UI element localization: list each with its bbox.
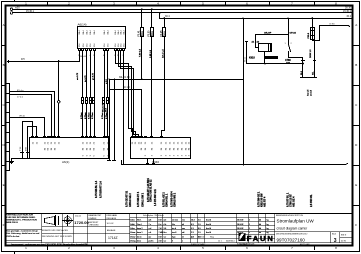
svg-text:Wag: Wag — [210, 236, 214, 238]
svg-text:0 Anz: 0 Anz — [130, 227, 135, 230]
svg-text:Schaltplan / DIN blatt: Schaltplan / DIN blatt — [143, 214, 164, 217]
svg-text:17 d.n: 17 d.n — [17, 97, 24, 99]
svg-text:F: F — [355, 223, 357, 227]
svg-text:12 1: 12 1 — [218, 241, 222, 243]
description block — [275, 232, 353, 243]
svg-text:X340.2 GN 31 AB 12: X340.2 GN 31 AB 12 — [150, 179, 153, 202]
projection symbol circle — [63, 216, 73, 226]
svg-text:v-4: v-4 — [149, 232, 152, 234]
svg-text:bmw 1: bmw 1 — [137, 232, 143, 234]
svg-text:E: E — [3, 183, 5, 187]
svg-text:15 30.1: 15 30.1 — [343, 10, 352, 13]
svg-text:8 br: 8 br — [172, 223, 176, 226]
svg-text:Das gezeigte. zusammen mit ge: Das gezeigte. zusammen mit ge — [7, 230, 39, 233]
ground arc pin ticks — [21, 152, 29, 154]
svg-text:gez: gez — [191, 236, 194, 238]
wire from pin 11 joining lower net — [121, 161, 123, 165]
wire mid bundle from 30L bus to lower edge — [114, 80, 116, 161]
svg-text:IDF/BLOCKHEIZ: IDF/BLOCKHEIZ — [191, 244, 206, 246]
wire fuse F3 down jog to connector X340 pin 7 — [162, 37, 165, 138]
fuse F3 body — [163, 28, 166, 37]
wire A6 pin 9 jog to X340 pin 2 — [119, 51, 136, 138]
svg-text:1.5: 1.5 — [198, 232, 201, 234]
svg-text:0 Abt: 0 Abt — [130, 223, 135, 226]
wire bus to fuse F30.5 — [312, 19, 314, 28]
svg-text:1: 1 — [249, 224, 250, 226]
connector X340 body — [131, 138, 191, 159]
wire A6 pin 3 to connector A6(1) — [90, 51, 92, 137]
bus right end labels — [343, 6, 352, 18]
svg-text:8.3: 8.3 — [191, 224, 194, 226]
svg-text:A02 RT 4: A02 RT 4 — [264, 196, 267, 207]
svg-text:bmw 2: bmw 2 — [137, 228, 143, 230]
svg-text:4-8: 4-8 — [149, 220, 152, 222]
svg-text:30L-F1 30: 30L-F1 30 — [119, 77, 130, 79]
svg-text:44: 44 — [259, 224, 261, 226]
bottom wire designation columns — [95, 178, 313, 207]
svg-text:C780: C780 — [285, 59, 291, 62]
svg-text:F0.15: F0.15 — [161, 30, 163, 37]
svg-text:1-v: 1-v — [164, 241, 167, 243]
wire AV branch — [109, 80, 111, 161]
parts table — [130, 214, 275, 243]
wire end hook right — [346, 164, 348, 165]
title block frame — [6, 213, 353, 215]
svg-text:A6(1): A6(1) — [62, 160, 69, 164]
svg-text:A6(14): A6(14) — [78, 23, 87, 27]
sheet right mini cells — [341, 234, 347, 242]
svg-text:0.75sw: 0.75sw — [92, 112, 94, 119]
svg-text:Stk 1: Stk 1 — [137, 219, 141, 222]
svg-text:EV d.n: EV d.n — [17, 90, 24, 92]
svg-text:0.75sw: 0.75sw — [106, 112, 108, 119]
bus 15 left terminal circle — [10, 12, 13, 15]
svg-text:VE dn: VE dn — [19, 116, 26, 118]
inline splice connectors row — [82, 98, 109, 104]
svg-text:0.75sw: 0.75sw — [85, 112, 87, 119]
wire long lower net — [122, 164, 346, 166]
side margin row ticks — [2, 46, 360, 206]
junction DH at branch — [58, 60, 60, 62]
svg-text:ZEICHNUNGSNUMMER/DWG-NO: ZEICHNUNGSNUMMER/DWG-NO — [276, 234, 308, 236]
svg-text:1-6 mm: 1-6 mm — [172, 220, 179, 222]
svg-text:0.75 SW-BL 1.4: 0.75 SW-BL 1.4 — [95, 180, 98, 198]
wire fuse drop to ground bar — [314, 41, 316, 78]
wire A6 pin 8 jog to X340 pin 1 — [116, 51, 133, 138]
wire label DR-V1.00 — [265, 56, 278, 59]
svg-text:2-6: 2-6 — [164, 228, 167, 230]
svg-text:ANT2 GEN.: ANT2 GEN. — [300, 243, 310, 246]
svg-text:ANLAGE: ANLAGE — [107, 229, 116, 232]
svg-text:B: B — [355, 63, 357, 67]
svg-text:sw 0.75: sw 0.75 — [77, 72, 79, 80]
ground symbol — [10, 159, 14, 164]
svg-text:DR06 1.5: DR06 1.5 — [310, 49, 312, 58]
svg-text:F30.5: F30.5 — [308, 32, 310, 38]
svg-text:0 bmg: 0 bmg — [130, 241, 135, 243]
svg-text:2.5: 2.5 — [198, 220, 201, 222]
svg-text:A02 GE 4: A02 GE 4 — [293, 196, 296, 207]
ground bar right pair — [301, 77, 317, 79]
svg-text:2.3: 2.3 — [191, 232, 194, 234]
svg-text:RELEASE: RELEASE — [107, 217, 117, 220]
svg-text:DH: DH — [21, 58, 25, 61]
svg-text:30-11: 30-11 — [245, 56, 247, 62]
junction on bus at fuse F1 — [141, 8, 143, 10]
svg-text:0.75 BR-RT 2.4: 0.75 BR-RT 2.4 — [100, 181, 103, 198]
column numbers top — [25, 2, 337, 6]
wire fuse F30.5 to border — [313, 26, 349, 41]
svg-text:1720.00: 1720.00 — [74, 220, 89, 225]
junction bus 15-4 relay drop — [242, 17, 244, 19]
svg-text:15 30.1: 15 30.1 — [26, 10, 35, 13]
svg-text:◄30: ◄30 — [15, 6, 21, 9]
svg-text:10.9.02: 10.9.02 — [237, 224, 243, 226]
svg-text:NO.01 00: NO.01 00 — [102, 103, 104, 112]
wire A6 pin 10 jog to X340 pin 3 — [121, 51, 139, 138]
fuse F30.5 body — [311, 28, 315, 40]
wire 17 to connector A6(1) pin 5 — [10, 95, 52, 138]
junction marker on DH branch — [58, 101, 60, 103]
svg-text:0.5: 0.5 — [198, 228, 201, 230]
junction on bus at fuse F2 — [151, 8, 153, 10]
wire ground arc to pin 2 — [28, 127, 37, 159]
connector X340 bottom stub 2 — [153, 159, 155, 164]
svg-text:7 v: 7 v — [149, 224, 152, 226]
relay K918 coil — [259, 44, 272, 52]
wire relay riser — [288, 19, 290, 35]
svg-text:F0.41: F0.41 — [138, 30, 141, 37]
svg-text:1: 1 — [249, 220, 250, 222]
wire fuse F1 down to node bus30L — [141, 37, 143, 80]
fold mark top — [14, 1, 16, 2]
svg-text:brn 4: brn 4 — [137, 235, 141, 238]
svg-text:E: E — [355, 183, 357, 187]
svg-text:0 Anz: 0 Anz — [130, 219, 135, 222]
svg-text:3: 3 — [334, 238, 337, 244]
wire A6 pin 2 to connector A6(1) — [86, 51, 88, 137]
svg-text:DK-00: DK-00 — [80, 56, 87, 58]
svg-text:b4: b4 — [182, 224, 184, 226]
parts table cell texts — [130, 219, 268, 243]
title block confidential text — [7, 214, 40, 238]
svg-text:hm 1.5: hm 1.5 — [308, 89, 310, 96]
svg-text:2.5 SW 94L: 2.5 SW 94L — [310, 194, 313, 207]
A6 pin numbers below terminals — [78, 55, 124, 57]
bus 15-4 third line — [160, 18, 353, 20]
svg-text:X340.1 SW 1: X340.1 SW 1 — [142, 192, 145, 207]
wire bus to fuse F1 — [141, 10, 143, 28]
svg-text:OKOs fur bot: OKOs fur bot — [7, 235, 20, 238]
wire A6 pin 11 down between connectors — [123, 51, 125, 165]
svg-text:X340.4 BL 1: X340.4 BL 1 — [165, 193, 168, 207]
svg-text:4-2: 4-2 — [164, 220, 167, 222]
fuse F2 body — [151, 28, 154, 37]
svg-text:M.M: M.M — [25, 147, 27, 151]
wire A6 pin 4 to connector A6(1) — [94, 51, 96, 137]
svg-text:bg: bg — [267, 220, 269, 222]
connector X340 pin numbers — [132, 141, 191, 156]
svg-text:DRAWN: DRAWN — [89, 217, 97, 220]
svg-text:15 4: 15 4 — [346, 15, 351, 18]
svg-text:FAUN: FAUN — [247, 234, 273, 243]
svg-text:A: A — [3, 23, 5, 27]
svg-text:And 4: And 4 — [206, 231, 211, 234]
logo FAUN — [238, 233, 245, 241]
svg-text:Or 90: Or 90 — [329, 23, 335, 26]
top margin column ticks — [48, 2, 315, 6]
svg-text:Datum: Datum — [75, 215, 81, 218]
svg-text:7 bl8: 7 bl8 — [159, 232, 163, 234]
svg-text:10.9.02: 10.9.02 — [107, 223, 115, 225]
svg-text:30 30: 30 30 — [345, 6, 352, 9]
svg-text:5.3: 5.3 — [191, 228, 194, 230]
svg-text:CHECKED: CHECKED — [89, 225, 100, 227]
junction 30L at mid wire — [114, 79, 116, 81]
junction coil bottom — [264, 63, 266, 65]
wire relay top run — [256, 34, 289, 36]
wire coil return run — [247, 63, 303, 65]
A6 internal pin name row upper — [79, 29, 125, 34]
svg-text:1.5: 1.5 — [198, 224, 201, 226]
svg-text:0.75sw: 0.75sw — [102, 112, 104, 119]
svg-text:T-80 1.5: T-80 1.5 — [140, 48, 142, 57]
svg-text:bmw: bmw — [137, 241, 142, 243]
svg-text:0 bew: 0 bew — [130, 232, 136, 234]
svg-text:m4: m4 — [182, 232, 185, 234]
wire bus to fuse F3 — [164, 19, 166, 28]
drawn checked cells — [42, 214, 118, 240]
wire bus to fuse F2 — [151, 10, 153, 28]
svg-text:1.5 RT-SW 4.11: 1.5 RT-SW 4.11 — [154, 188, 157, 206]
gez gepr row — [191, 236, 234, 242]
svg-text:OP-02: OP-02 — [290, 33, 297, 35]
svg-text:F: F — [3, 223, 5, 227]
svg-text:mm: mm — [182, 220, 186, 222]
svg-text:X340.8 GE 2: X340.8 GE 2 — [129, 193, 132, 207]
svg-text:bl-v: bl-v — [164, 232, 167, 234]
svg-text:04.ANS: 04.ANS — [240, 243, 247, 246]
svg-text:sw 2.5: sw 2.5 — [311, 89, 313, 96]
fold mark bottom — [14, 253, 16, 254]
A6 pin terminals — [79, 49, 125, 51]
svg-text:0.75sw: 0.75sw — [81, 112, 83, 119]
bus 15 second line — [13, 12, 353, 14]
bus 30 left terminal circle — [10, 8, 13, 11]
svg-text:b-w 8: b-w 8 — [172, 232, 177, 234]
svg-text:8: 8 — [172, 241, 173, 243]
svg-text:mm: mm — [182, 228, 186, 230]
svg-text:44: 44 — [259, 220, 261, 222]
terminal tick wire 109 — [108, 160, 111, 162]
connector X340 pin ticks — [132, 136, 163, 138]
svg-text:64039414: 64039414 — [226, 241, 234, 243]
wire relay coil feed — [255, 35, 257, 44]
svg-text:F0.30: F0.30 — [149, 30, 151, 37]
wire contact to right drop — [289, 58, 303, 78]
column numbers bottom — [25, 246, 337, 250]
wire relay area drop to lower net — [243, 19, 245, 165]
pin ticks on ground pair — [302, 60, 316, 62]
svg-text:0.75sw: 0.75sw — [89, 112, 91, 119]
connector X340 bottom stub 1 — [147, 159, 149, 164]
svg-text:B: B — [3, 63, 5, 67]
svg-text:K918: K918 — [249, 57, 255, 60]
svg-text:—— Improvement - anderungen nu: —— Improvement - anderungen nur uber CAD… — [7, 243, 88, 246]
wire end hook OR90 — [349, 26, 350, 27]
projection symbol cone — [45, 216, 59, 226]
wire A6 pin 6 to connector A6(1) — [107, 51, 109, 137]
connector A6(1) pin numbers — [33, 141, 110, 156]
wire A6 pin 5 to connector A6(1) — [104, 51, 106, 137]
svg-text:0 bew: 0 bew — [130, 236, 136, 238]
junction on bus at fuse F3 — [164, 17, 166, 19]
svg-text:44: 44 — [259, 228, 261, 230]
svg-text:1-v: 1-v — [164, 236, 167, 238]
svg-text:bg: bg — [267, 224, 269, 226]
svg-text:99T07027160: 99T07027160 — [277, 238, 306, 243]
svg-text:8 gn: 8 gn — [172, 236, 176, 238]
junction bus 15-4 at F30.5 — [311, 17, 313, 19]
svg-text:10.9.02: 10.9.02 — [237, 228, 243, 230]
svg-text:1714Z: 1714Z — [108, 236, 118, 240]
wire DH branch down to connector A6(1) — [58, 62, 60, 137]
fuse F1 body — [141, 28, 144, 37]
junction 30L at left riser — [108, 78, 110, 80]
svg-text:10.9.02: 10.9.02 — [237, 220, 243, 222]
svg-text:And 4: And 4 — [206, 219, 211, 222]
bottom margin column ticks — [48, 246, 315, 250]
bundle upper wire labels — [77, 72, 108, 84]
svg-text:1: 1 — [249, 228, 250, 230]
bus 15-4 elbow from bus 15 — [159, 13, 161, 19]
terminal tick wire 114 — [113, 160, 116, 162]
svg-text:gn 0.75: gn 0.75 — [92, 72, 94, 80]
junction bus 15-4 at relay riser — [287, 17, 289, 19]
svg-text:AV 1 0: AV 1 0 — [123, 86, 130, 89]
svg-text:BSI N: BSI N — [341, 234, 347, 236]
trunk connector ladder left — [6, 84, 10, 171]
svg-text:4 b: 4 b — [164, 224, 167, 226]
wire DH from border to A6 pin 1 — [8, 52, 80, 62]
svg-text:And 4: And 4 — [206, 227, 211, 230]
svg-text:X340.5 WS 2: X340.5 WS 2 — [173, 192, 176, 207]
A6 internal pin name row lower — [79, 43, 125, 47]
svg-text:FREIGABE: FREIGABE — [107, 214, 118, 217]
junction bus 15 at elbow — [159, 12, 161, 14]
node 30L distribution bus — [110, 79, 244, 81]
junction coil return at right drop — [303, 63, 305, 65]
svg-text:OR-OP: OR-OP — [264, 33, 272, 35]
svg-text:ERSATZ FUR / REPLACES: ERSATZ FUR / REPLACES — [42, 229, 68, 232]
svg-text:And 4: And 4 — [206, 223, 211, 226]
svg-text:bg: bg — [267, 228, 269, 230]
connector A6(1) body — [30, 138, 109, 159]
svg-text:brn 4: brn 4 — [172, 227, 176, 230]
wire ground arc to pin 1 — [23, 122, 33, 159]
svg-text:v-d: v-d — [149, 228, 152, 230]
svg-text:10.3: 10.3 — [191, 220, 195, 222]
svg-text:DR-V1.00: DR-V1.00 — [266, 57, 276, 59]
wire DH pin tick — [8, 61, 10, 63]
svg-text:BEARBEITET: BEARBEITET — [89, 214, 103, 217]
logo strapline — [237, 231, 275, 233]
wire EV to connector A6(1) pin 6 — [10, 92, 55, 138]
svg-text:Blatt: Blatt — [332, 233, 336, 236]
ground return line bottom left — [12, 158, 29, 160]
coil stub tick — [246, 41, 248, 43]
bus 30 top line — [13, 9, 353, 11]
row letters — [3, 23, 359, 227]
svg-text:0.75 SW-RT 4: 0.75 SW-RT 4 — [137, 191, 140, 207]
wire AV upper run — [110, 90, 142, 138]
svg-text:0 rt: 0 rt — [159, 223, 162, 226]
relay contact — [288, 35, 290, 45]
wire A6 pin 1 to connector A6(1) — [82, 51, 84, 137]
wire labels centre bundle — [81, 103, 108, 119]
svg-text:BENENNUNG/DESCRIPTION: BENENNUNG/DESCRIPTION — [276, 215, 304, 217]
svg-text:br 0.75: br 0.75 — [85, 75, 87, 82]
svg-text:1.85 L.5: 1.85 L.5 — [150, 49, 152, 58]
svg-text:b: b — [182, 241, 183, 243]
svg-text:Urh. Fahrzeug. direkt beur im: Urh. Fahrzeug. direkt beur im und — [7, 232, 40, 235]
connector A6(1) pin ticks — [32, 136, 109, 138]
control unit A6(14) body — [78, 27, 126, 49]
svg-text:prufm: prufm — [149, 240, 154, 243]
svg-text:10.9.02: 10.9.02 — [198, 236, 204, 238]
wire coil stub left — [246, 42, 248, 64]
svg-text:ZEICHNUNG GILT NUR KOMPL: ZEICHNUNG GILT NUR KOMPL — [42, 236, 73, 238]
svg-text:MRB 200 H: MRB 200 H — [7, 222, 19, 224]
svg-text:30 4: 30 4 — [165, 15, 170, 18]
wire VE to connector A6(1) pin 4 — [10, 118, 45, 138]
svg-text:02 IN: 02 IN — [341, 240, 346, 242]
wire fuse F2 down to connector X340 pin 5 — [151, 37, 153, 138]
svg-text:Stromlaufplan UW: Stromlaufplan UW — [277, 219, 315, 224]
junction relay top — [287, 34, 289, 36]
svg-text:A: A — [355, 23, 357, 27]
junction lower net at relay drop — [243, 164, 245, 166]
wire coil bottom — [264, 52, 266, 64]
svg-text:b1: b1 — [182, 236, 184, 238]
svg-text:Dm 4: Dm 4 — [137, 224, 142, 226]
svg-text:circuit diagram carrier: circuit diagram carrier — [277, 226, 309, 230]
svg-text:Art.1 L.5: Art.1 L.5 — [161, 48, 164, 58]
junction fuse F1 at 30L bus — [141, 78, 143, 80]
svg-text:4-v: 4-v — [149, 236, 152, 238]
